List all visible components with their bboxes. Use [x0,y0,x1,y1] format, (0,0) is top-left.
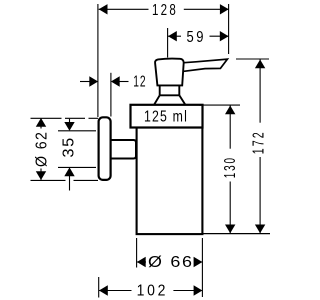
dim 130 arrows [225,106,235,234]
svg-text:12: 12 [133,73,146,90]
dim 172 line [259,60,261,234]
dim 12 text [133,73,146,90]
dim 59 line [168,35,229,37]
dim 128 arrows [99,4,229,14]
label 125 ml [144,109,188,126]
dim 102 line [99,290,202,292]
dim 102 arrows [99,285,202,295]
dim D66 line [137,261,203,263]
dim 35 top stem and arrow [64,119,74,131]
container collar [131,105,203,128]
dim 59 text [187,29,207,46]
dim 130 extension line [199,104,240,106]
dim D66 text [148,254,194,271]
pump flare base [154,95,185,104]
dim D62 line [40,118,42,180]
svg-text:Ø 62: Ø 62 [33,131,50,167]
dim 128 text [152,2,178,19]
dim 102 extension line [98,277,100,298]
svg-text:125 ml: 125 ml [144,109,188,126]
svg-text:172: 172 [251,130,268,154]
svg-text:128: 128 [152,2,178,19]
dim 128 line [99,8,229,10]
dim 59 extension line [167,28,169,58]
dim 128 extension line left [97,4,99,117]
mounting arm [111,140,136,159]
dim 35 bottom stem and arrow [64,167,74,190]
dim 35 extension line bottom [58,166,96,168]
svg-text:Ø 66: Ø 66 [148,254,194,271]
dim 172 text [251,130,268,154]
dim 35 text [61,136,78,157]
dim 130 line [229,106,231,234]
container body [137,128,203,235]
dim D62 text [33,131,50,167]
dim D62 extension line bottom [31,179,99,181]
dim 59 arrows [168,31,229,41]
dim 12 extension line [110,73,112,117]
dim D66 extension line right [201,238,203,297]
dim D66 extension line left [136,238,138,268]
dim D62 arrows [36,118,46,180]
svg-text:102: 102 [137,283,169,300]
svg-text:130: 130 [222,156,239,178]
dim D62 extension line top [31,117,99,119]
dim 172 arrows [255,60,265,234]
svg-text:59: 59 [187,29,207,46]
dim 128 extension line right [228,4,230,54]
dim 35 extension line top [58,130,96,132]
pump lever [184,59,228,71]
dim 130 text [222,156,239,178]
dim 12 right arrow [111,76,129,86]
dim 102 text [137,283,169,300]
container bottom extension line [203,233,271,235]
dim 12 left arrow [80,76,98,86]
wall plate (escutcheon, side view) [99,117,111,180]
pump head body [155,59,184,86]
svg-text:35: 35 [61,136,78,157]
dim 172 extension line [236,58,269,60]
pump neck [160,85,180,95]
dim D66 arrows [137,257,203,267]
